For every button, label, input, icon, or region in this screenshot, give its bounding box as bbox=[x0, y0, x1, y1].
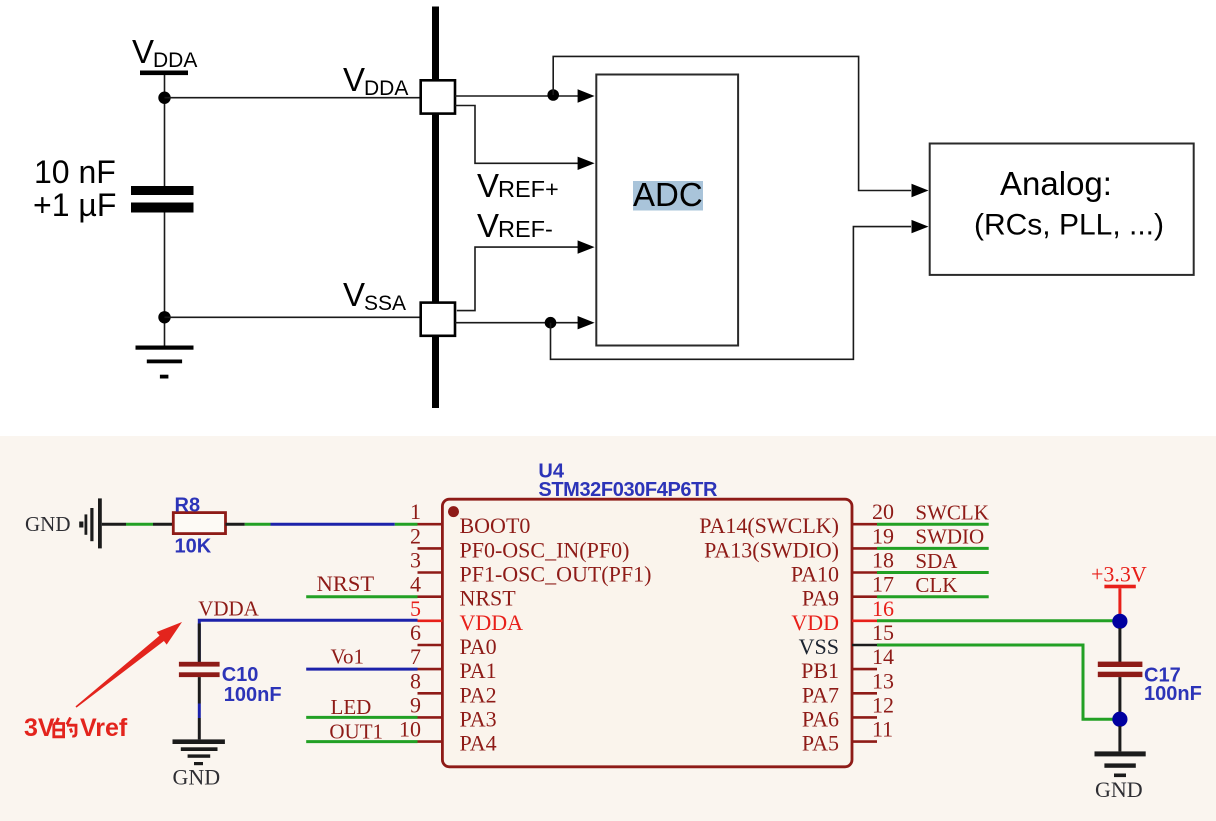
svg-text:VDDA: VDDA bbox=[198, 597, 259, 621]
wire Vo1 (blue) bbox=[306, 668, 417, 671]
svg-text:10: 10 bbox=[399, 717, 421, 742]
resistor R8 bbox=[173, 513, 225, 534]
net label VREF- bbox=[477, 207, 553, 244]
power port GND (left of R8) bbox=[25, 498, 102, 548]
wire: junction down and across to Analog branch bbox=[551, 227, 912, 360]
wire SDA (green) bbox=[877, 571, 989, 574]
svg-text:20: 20 bbox=[872, 499, 894, 524]
svg-text:VDD: VDD bbox=[791, 610, 839, 635]
left pin numbers 1-10 bbox=[399, 499, 421, 741]
wire: VDDA square to ADC bbox=[455, 95, 590, 97]
wire: VDDA node to pin square bbox=[165, 97, 421, 99]
left pin names bbox=[460, 513, 652, 755]
svg-text:PA7: PA7 bbox=[802, 682, 839, 707]
svg-text:R8: R8 bbox=[175, 495, 201, 517]
svg-text:Vref: Vref bbox=[80, 714, 128, 742]
ground symbol (below C17) bbox=[1095, 751, 1146, 777]
svg-text:6: 6 bbox=[410, 620, 421, 645]
wire NRST (green) bbox=[306, 595, 417, 598]
background lower schematic area bbox=[0, 436, 1216, 821]
wire: junction up and across to Analog branch bbox=[553, 56, 911, 190]
wire: VSSA node to pin square bbox=[165, 316, 421, 318]
svg-text:DDA: DDA bbox=[364, 77, 408, 100]
svg-text:OUT1: OUT1 bbox=[329, 720, 383, 744]
svg-text:PA10: PA10 bbox=[791, 562, 839, 587]
power port +3.3V bbox=[1091, 562, 1147, 616]
chip boundary bus line bbox=[432, 7, 439, 409]
svg-text:STM32F030F4P6TR: STM32F030F4P6TR bbox=[538, 479, 718, 501]
svg-text:3V: 3V bbox=[24, 714, 55, 742]
block ADC bbox=[596, 75, 738, 346]
svg-text:PA9: PA9 bbox=[802, 586, 839, 611]
right pin numbers 20-11 bbox=[872, 499, 894, 741]
svg-text:DDA: DDA bbox=[153, 49, 197, 72]
svg-text:PA4: PA4 bbox=[460, 731, 497, 756]
svg-text:7: 7 bbox=[410, 644, 421, 669]
svg-text:LED: LED bbox=[331, 695, 372, 719]
svg-text:1: 1 bbox=[410, 499, 421, 524]
svg-text:V: V bbox=[477, 207, 499, 244]
svg-text:+3.3V: +3.3V bbox=[1091, 562, 1147, 587]
svg-text:8: 8 bbox=[410, 668, 421, 693]
svg-text:NRST: NRST bbox=[317, 571, 375, 596]
svg-text:10K: 10K bbox=[175, 536, 212, 558]
wire: VSSA square to ADC bbox=[455, 322, 590, 324]
arrow into ADC (VREF+) bbox=[578, 157, 595, 170]
svg-text:ADC: ADC bbox=[633, 176, 703, 213]
node: VDDA junction dot bbox=[158, 92, 170, 104]
svg-text:CLK: CLK bbox=[915, 573, 957, 597]
capacitor C10 bbox=[179, 662, 220, 677]
wire LED (green) bbox=[306, 716, 417, 719]
svg-text:18: 18 bbox=[872, 548, 894, 573]
svg-text:V: V bbox=[343, 276, 365, 313]
svg-text:9: 9 bbox=[410, 692, 421, 717]
svg-text:PF0-OSC_IN(PF0): PF0-OSC_IN(PF0) bbox=[460, 537, 630, 562]
wire: VDDA flag to capacitor top bbox=[164, 75, 166, 190]
svg-text:GND: GND bbox=[1095, 777, 1143, 802]
value label 10 nF +1 uF bbox=[33, 154, 116, 223]
ground symbol (below C10) bbox=[173, 739, 225, 765]
svg-text:+1 µF: +1 µF bbox=[33, 187, 116, 223]
svg-text:2: 2 bbox=[410, 523, 421, 548]
pin square VDDA bbox=[421, 80, 455, 113]
svg-text:Analog:: Analog: bbox=[1000, 165, 1112, 202]
svg-text:V: V bbox=[477, 167, 499, 204]
svg-text:PA3: PA3 bbox=[460, 706, 497, 731]
wire: node to C17 top bbox=[1118, 628, 1121, 662]
svg-text:SWDIO: SWDIO bbox=[915, 525, 984, 549]
ground (top-left) bbox=[136, 346, 194, 379]
wire: VREF+ from VDDA square bbox=[455, 106, 590, 164]
annotation text 3V的Vref bbox=[24, 714, 128, 742]
svg-text:V: V bbox=[343, 61, 365, 98]
highlight behind ADC text bbox=[633, 181, 703, 211]
svg-text:PA14(SWCLK): PA14(SWCLK) bbox=[699, 513, 839, 538]
node: junction dot at C17 bottom bbox=[1112, 712, 1127, 727]
chip U4 body bbox=[442, 499, 852, 767]
svg-text:SWCLK: SWCLK bbox=[915, 501, 989, 525]
svg-text:100nF: 100nF bbox=[224, 684, 282, 706]
svg-text:PF1-OSC_OUT(PF1): PF1-OSC_OUT(PF1) bbox=[460, 562, 652, 587]
wire VDDA (blue) to pin 5 bbox=[199, 620, 417, 661]
pin label VDDA (at square) bbox=[343, 61, 408, 100]
svg-text:13: 13 bbox=[872, 668, 894, 693]
wire: C10 to GND (black with blue segment) bbox=[198, 677, 201, 739]
pin square VSSA bbox=[421, 303, 455, 336]
svg-text:V: V bbox=[132, 33, 154, 70]
svg-text:BOOT0: BOOT0 bbox=[460, 513, 531, 538]
wire VDD (green) pin16 to +3.3V node bbox=[877, 619, 1113, 622]
capacitor C17 bbox=[1098, 662, 1143, 678]
wire: VREF- from VSSA square bbox=[457, 247, 590, 311]
svg-text:PA1: PA1 bbox=[460, 658, 497, 683]
wire SWDIO (green) bbox=[877, 547, 989, 550]
svg-text:16: 16 bbox=[872, 596, 894, 621]
svg-text:NRST: NRST bbox=[460, 586, 517, 611]
svg-text:5: 5 bbox=[410, 596, 421, 621]
pin label VSSA (at square) bbox=[343, 276, 406, 315]
svg-text:VSS: VSS bbox=[799, 634, 839, 659]
svg-text:PA0: PA0 bbox=[460, 634, 497, 659]
svg-text:SSA: SSA bbox=[364, 292, 406, 315]
arrow into ADC (VREF-) bbox=[578, 240, 595, 253]
arrow into ADC (VSSA) bbox=[578, 316, 595, 329]
svg-text:Vo1: Vo1 bbox=[331, 645, 364, 669]
svg-text:(RCs, PLL, ...): (RCs, PLL, ...) bbox=[974, 209, 1164, 242]
wire OUT1 (green) bbox=[306, 740, 417, 743]
svg-text:GND: GND bbox=[25, 512, 71, 536]
node: junction dot at +3.3V / C17 top bbox=[1112, 614, 1127, 629]
net label VREF+ bbox=[477, 167, 559, 204]
arrow into Analog (top) bbox=[912, 184, 929, 197]
capacitor 10nF+1uF bbox=[131, 186, 194, 213]
svg-text:VDDA: VDDA bbox=[460, 610, 524, 635]
pin-1 marker dot bbox=[448, 506, 459, 517]
svg-text:PA13(SWDIO): PA13(SWDIO) bbox=[704, 537, 839, 562]
arrow into ADC (VDDA) bbox=[578, 89, 595, 102]
left pin stubs 1-10 bbox=[418, 524, 443, 741]
annotation arrow (red) bbox=[76, 622, 183, 708]
block Analog bbox=[930, 144, 1194, 275]
svg-text:REF-: REF- bbox=[498, 216, 553, 242]
node: VSSA junction dot bbox=[158, 311, 170, 323]
svg-text:100nF: 100nF bbox=[1144, 683, 1202, 705]
label Analog: (RCs, PLL, ...) bbox=[974, 165, 1164, 242]
svg-text:GND: GND bbox=[173, 765, 221, 790]
svg-text:12: 12 bbox=[872, 692, 894, 717]
svg-text:PA2: PA2 bbox=[460, 682, 497, 707]
svg-text:3: 3 bbox=[410, 548, 421, 573]
wire: R8 to pin 1 (black/green/blue segments) bbox=[226, 523, 418, 526]
wire CLK (green) bbox=[877, 595, 989, 598]
wire: VDDA vertical black over blue to C10 bbox=[198, 624, 201, 663]
node: junction dot on VSSA wire bbox=[545, 317, 557, 329]
svg-text:PA5: PA5 bbox=[802, 731, 839, 756]
svg-text:14: 14 bbox=[872, 644, 894, 669]
svg-text:4: 4 bbox=[410, 572, 421, 597]
wire VSS (green) pin15 to lower node bbox=[877, 645, 1113, 719]
wire: capacitor bottom to ground bbox=[164, 213, 166, 346]
svg-text:11: 11 bbox=[872, 717, 893, 742]
right pin names bbox=[699, 513, 839, 755]
svg-text:19: 19 bbox=[872, 523, 894, 548]
arrow into Analog (bottom) bbox=[912, 220, 929, 233]
power flag VDDA (top-left) bbox=[132, 33, 197, 75]
svg-text:PB1: PB1 bbox=[801, 658, 839, 683]
svg-text:10 nF: 10 nF bbox=[34, 154, 116, 190]
svg-text:SDA: SDA bbox=[915, 549, 958, 573]
svg-text:15: 15 bbox=[872, 620, 894, 645]
svg-text:17: 17 bbox=[872, 572, 894, 597]
svg-text:C10: C10 bbox=[222, 664, 259, 686]
svg-text:PA6: PA6 bbox=[802, 706, 839, 731]
right pin stubs 20-11 bbox=[852, 524, 877, 741]
wire SWCLK (green) bbox=[877, 523, 989, 526]
wire: lower node to ground bbox=[1118, 726, 1121, 751]
wire: C17 bottom to lower node bbox=[1118, 677, 1121, 712]
wire: GND to R8 (black/green segments) bbox=[102, 523, 174, 526]
svg-text:REF+: REF+ bbox=[498, 176, 559, 202]
node: junction dot on VDDA wire bbox=[547, 89, 559, 101]
